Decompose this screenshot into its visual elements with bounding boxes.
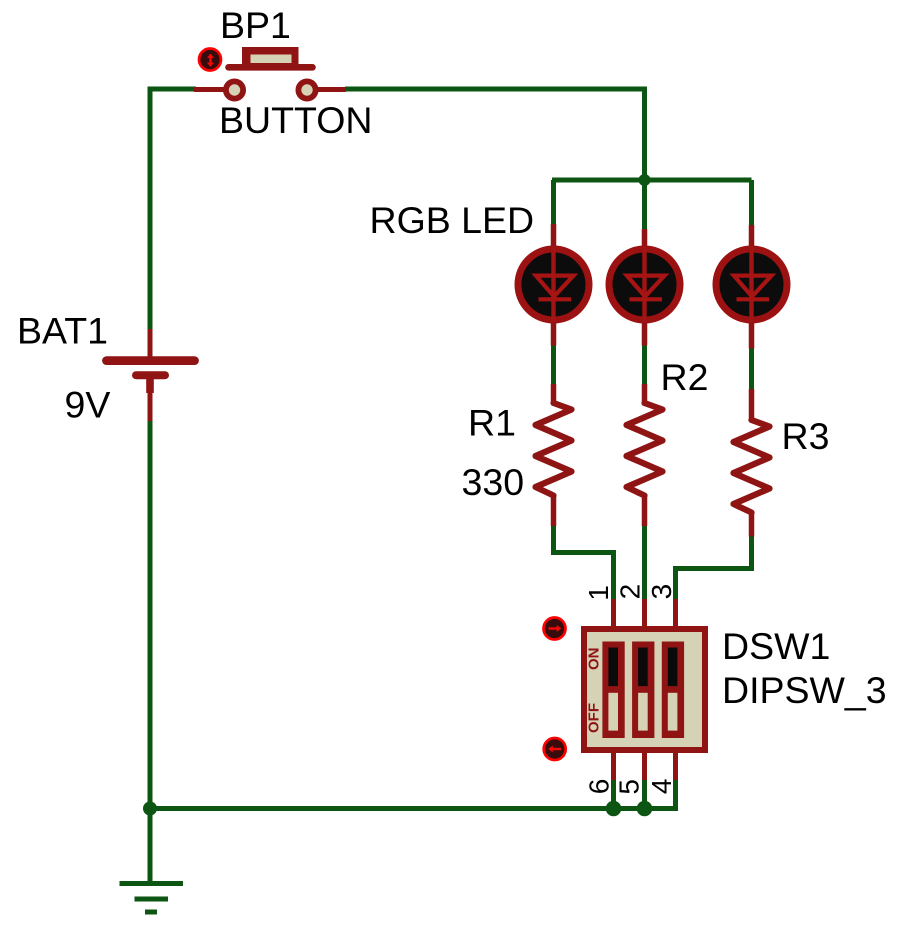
LED D3 (blue) — [716, 225, 787, 349]
wire: button right terminal to top-right corner down to junction and LED2 — [345, 89, 645, 229]
svg-text:DIPSW_3: DIPSW_3 — [722, 669, 887, 711]
resistor R3 — [734, 389, 770, 537]
wire: horizontal LED distribution rail — [552, 178, 752, 183]
wire: rail drop to LED3 — [749, 180, 754, 225]
resistor R2 — [627, 384, 663, 526]
svg-text:1: 1 — [583, 585, 614, 601]
pin 1 stub — [611, 599, 616, 627]
wire: rail drop to LED1 — [551, 180, 556, 224]
pin 2 stub — [642, 599, 647, 627]
svg-text:BP1: BP1 — [220, 4, 291, 46]
bar — [229, 64, 313, 71]
svg-text:9V: 9V — [65, 384, 111, 426]
terminal right — [298, 81, 315, 98]
pin stub right — [316, 87, 346, 92]
wire: battery positive up and over to button left terminal — [150, 89, 196, 330]
svg-text:6: 6 — [583, 779, 614, 795]
wire: DIP pin 4 down and bottom ground rail to battery — [150, 779, 676, 809]
cap — [242, 47, 299, 66]
svg-text:BUTTON: BUTTON — [219, 99, 372, 141]
node: junction bottom rail at battery column — [143, 802, 157, 816]
slot 1 — [602, 642, 624, 739]
actuator toggle top — [544, 618, 566, 640]
LED D2 (green) — [609, 229, 680, 346]
wire: LED2 cathode to R2 — [642, 345, 647, 384]
svg-text:R2: R2 — [661, 356, 709, 398]
wire: R2 bottom to DIP pin 2 — [642, 526, 647, 599]
svg-text:ON: ON — [586, 648, 603, 671]
node: junction bottom rail at DIP pin 6 — [606, 801, 622, 817]
svg-text:RGB LED: RGB LED — [370, 199, 535, 241]
wire: LED1 cathode to R1 — [551, 345, 556, 384]
actuator toggle circle — [199, 49, 221, 71]
body — [584, 629, 705, 750]
pushbutton BP1 — [194, 47, 346, 99]
wire: DIP pin 6 to bottom rail — [611, 779, 616, 809]
LED D1 (red) — [518, 224, 589, 346]
wire: LED3 cathode to R3 — [749, 348, 754, 389]
pin 5 stub — [642, 752, 647, 780]
wire: battery negative down to ground — [148, 421, 153, 884]
svg-text:330: 330 — [462, 461, 525, 503]
node: junction of button wire and LED rail — [639, 174, 651, 186]
svg-text:5: 5 — [614, 779, 645, 795]
pin 6 stub — [611, 752, 616, 780]
svg-text:3: 3 — [646, 584, 677, 600]
pin 4 stub — [673, 752, 678, 780]
slot 2 — [632, 642, 654, 739]
svg-text:R3: R3 — [782, 415, 830, 457]
wire: R3 bottom jog to DIP pin 3 — [676, 537, 752, 600]
DIP switch DSW1 — [544, 599, 706, 780]
svg-text:DSW1: DSW1 — [722, 625, 830, 667]
svg-text:4: 4 — [646, 779, 677, 795]
svg-text:2: 2 — [614, 584, 645, 600]
resistor R1 — [536, 384, 572, 526]
terminal left — [226, 81, 243, 98]
actuator toggle bottom — [544, 738, 566, 760]
battery BAT1 — [107, 329, 195, 421]
node: junction bottom rail at DIP pin 5 — [637, 801, 653, 817]
wire: R1 bottom jog to DIP pin 1 — [554, 526, 614, 599]
pin stub left — [194, 87, 226, 92]
svg-text:R1: R1 — [468, 402, 516, 444]
svg-text:BAT1: BAT1 — [17, 310, 108, 352]
ground — [120, 884, 184, 913]
pin 3 stub — [673, 599, 678, 627]
svg-text:OFF: OFF — [586, 703, 603, 733]
slot 3 — [662, 642, 684, 739]
wire: DIP pin 5 to bottom rail — [642, 779, 647, 809]
